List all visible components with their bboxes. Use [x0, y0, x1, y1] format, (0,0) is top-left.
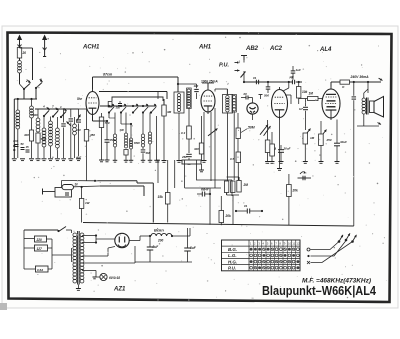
ground terminal A2 arrow	[44, 38, 46, 50]
cap C3 15	[26, 149, 30, 151]
wire taps right	[47, 238, 53, 240]
cap C11 500	[266, 86, 271, 88]
IF2 primary coil	[226, 96, 229, 99]
P.U. jack arrow 2	[235, 70, 240, 72]
osc resistor R22	[124, 150, 128, 156]
cap C7 150F	[105, 139, 110, 141]
wire IF2 downs	[226, 113, 228, 181]
cap C2 50	[21, 147, 25, 149]
svg-text:11: 11	[292, 242, 295, 246]
switch link 1	[311, 242, 340, 250]
band switch S1b	[35, 87, 37, 89]
wire C21 gnd rail	[135, 261, 192, 263]
coil L1 antenna coil	[16, 110, 20, 114]
svg-text:50M: 50M	[248, 126, 255, 130]
wire ACH1 screen	[92, 117, 94, 122]
wire switch to trafo	[66, 229, 72, 231]
svg-text:Blaupunkt–W66K|AL4: Blaupunkt–W66K|AL4	[262, 283, 377, 298]
cap C20 01b	[246, 209, 248, 214]
transformer primary	[73, 233, 77, 237]
junction mid	[94, 180, 96, 182]
osc switch S3e	[150, 111, 152, 113]
wire taps to trafo	[52, 254, 72, 256]
ground AC2	[277, 168, 282, 170]
volume pot arrow	[208, 129, 218, 136]
osc coil L9 30000	[124, 133, 127, 136]
wire AB2 down	[252, 114, 254, 120]
tube AB2 diode	[247, 103, 258, 114]
resistor R9 50M	[236, 128, 240, 139]
speaker cone	[374, 97, 384, 118]
resistor R13 2k	[270, 144, 275, 156]
svg-text:200: 200	[157, 239, 164, 243]
cap C14 1uF top	[291, 70, 296, 72]
resistor R3 700	[36, 133, 40, 143]
resistor R17 250	[319, 134, 324, 146]
antenna A1 dipole ticks	[18, 45, 20, 48]
svg-text:87cm: 87cm	[103, 73, 113, 77]
wire OT top	[363, 93, 365, 98]
variable cap CV	[76, 119, 81, 121]
svg-text:6500: 6500	[134, 141, 140, 145]
svg-text:Bckn: Bckn	[154, 228, 164, 233]
wire AH1 drops	[203, 112, 205, 160]
ground R8	[202, 160, 207, 162]
svg-text:50: 50	[21, 142, 25, 146]
switch link 2	[311, 241, 347, 257]
cap C8 100	[194, 88, 199, 90]
svg-text:AH1: AH1	[198, 45, 212, 51]
IF2 secondary	[233, 96, 236, 99]
mains switch	[59, 227, 67, 232]
pot AL4 b	[319, 130, 327, 140]
resistor R5 700	[99, 117, 103, 128]
lamp tap	[82, 270, 96, 272]
resistor R8 300	[199, 143, 203, 154]
wire switch drops	[23, 89, 25, 99]
wire IF2 top	[226, 89, 228, 95]
switch post dot	[307, 255, 309, 257]
svg-text:240V 36mA: 240V 36mA	[350, 75, 370, 79]
wire AL4 plate rail	[350, 81, 382, 83]
voltage tap box 220	[35, 236, 47, 242]
svg-text:0.3: 0.3	[181, 131, 186, 135]
svg-text:00: 00	[244, 92, 248, 96]
selector box	[55, 188, 72, 198]
ground C9	[187, 162, 192, 164]
IF2 transformer	[223, 95, 233, 114]
wire IF1 top	[177, 77, 179, 92]
cap C16 U7	[303, 106, 308, 108]
svg-text:12: 12	[296, 242, 300, 246]
coil L2	[30, 106, 34, 110]
wire tuner left	[13, 99, 15, 158]
wire IF1 down	[178, 113, 180, 160]
antenna A1 arrow	[19, 38, 21, 48]
wire lower rail 2	[100, 185, 144, 187]
cap C15 30uF	[278, 149, 284, 151]
switch post circle	[307, 248, 310, 251]
wire inner loop	[112, 97, 163, 101]
svg-text:Si: Si	[75, 183, 78, 187]
transformer secondary	[80, 233, 84, 237]
svg-text:0.5: 0.5	[230, 157, 235, 161]
wire PU bus	[244, 81, 293, 83]
svg-text:20k: 20k	[225, 214, 232, 218]
svg-text:L.G.: L.G.	[228, 253, 237, 258]
resistor R18 15k	[165, 193, 170, 205]
pot 1M arrow	[264, 126, 271, 136]
cap field	[352, 96, 357, 98]
svg-text:127: 127	[37, 247, 43, 251]
HT tap mid	[82, 242, 96, 244]
wire antenna down	[19, 80, 21, 84]
ground R11	[265, 161, 270, 163]
cap C22 8uF	[184, 247, 191, 249]
wire speaker return	[357, 125, 379, 127]
wire mains rails	[62, 180, 96, 182]
resistor R-ant 20k	[17, 48, 21, 59]
band switch S2c	[60, 116, 62, 118]
coil L7 150	[73, 124, 77, 128]
svg-text:2M: 2M	[243, 183, 249, 187]
svg-text:15k: 15k	[158, 195, 164, 199]
switch pivot dots	[338, 240, 341, 243]
cap C10 01	[255, 80, 257, 85]
wire AC2 plate	[285, 94, 291, 96]
tuning cap CV arrow	[77, 115, 81, 122]
trimmer CT1 arrow	[67, 122, 71, 126]
dial lamp	[100, 273, 107, 280]
wire trio top	[238, 177, 240, 181]
tube AZ1	[115, 233, 129, 247]
osc switch S3b	[120, 111, 122, 113]
coil L6	[56, 128, 60, 132]
svg-text:AZ1: AZ1	[113, 287, 126, 293]
osc rail	[100, 105, 156, 107]
speaker return arrow	[378, 123, 382, 125]
IF1 transformer can	[174, 92, 184, 113]
band switch S1a	[23, 88, 25, 90]
transformer core	[77, 231, 79, 285]
svg-text:1: 1	[40, 78, 42, 82]
wire choke out	[172, 235, 190, 237]
wire AL4 top	[330, 82, 332, 87]
svg-text:26F: 26F	[181, 155, 187, 159]
svg-text:1uF: 1uF	[296, 68, 302, 72]
wire AZ1 out	[129, 240, 140, 242]
cap C1 150	[15, 144, 19, 146]
resistor trio Rb	[231, 181, 235, 193]
wire y188 link	[185, 187, 221, 189]
svg-text:B.G.: B.G.	[228, 247, 237, 252]
svg-text:3M: 3M	[167, 110, 172, 114]
svg-text:400: 400	[23, 133, 29, 137]
resistor R11 1M	[265, 140, 270, 153]
resistor R10 05M	[236, 152, 241, 163]
svg-text:AL4: AL4	[319, 47, 332, 53]
ground IF1	[177, 160, 182, 162]
svg-text:30uF: 30uF	[284, 147, 291, 151]
osc switch S3c	[132, 111, 134, 113]
svg-text:30uF: 30uF	[340, 140, 347, 144]
svg-text:0.6A: 0.6A	[37, 268, 43, 272]
osc switch S3a	[108, 111, 110, 113]
pot AC2 arrow	[260, 125, 268, 135]
junction dots left	[13, 145, 15, 147]
svg-text:10: 10	[288, 242, 292, 246]
svg-text:500: 500	[264, 94, 269, 98]
B+ bus	[83, 223, 354, 227]
svg-text:150F: 150F	[110, 138, 117, 142]
wire ACH1 bottom rail	[95, 180, 137, 182]
resistor R6 3M	[162, 105, 166, 116]
switch levers	[339, 236, 343, 242]
pot AL4 a	[303, 129, 311, 139]
osc feed links	[108, 113, 110, 119]
wire grid link	[79, 108, 87, 110]
svg-text:RF: RF	[201, 188, 205, 192]
cap C34 box	[182, 160, 201, 164]
cap C17 30uF	[334, 142, 340, 144]
wire AC2 grid	[288, 82, 290, 88]
svg-text:AB2: AB2	[245, 46, 259, 52]
svg-text:20: 20	[22, 51, 27, 55]
HT link	[95, 236, 97, 243]
selector cap	[65, 192, 69, 194]
coil L4	[42, 128, 46, 132]
svg-text:15: 15	[26, 145, 30, 149]
tube AC2	[272, 90, 288, 118]
padder cap C5	[69, 118, 74, 120]
resistor R14 1M grid	[308, 97, 319, 101]
wire selector down	[81, 187, 83, 196]
wire box upper	[197, 160, 233, 180]
wire PU down	[243, 60, 245, 63]
osc coil L11	[141, 134, 144, 137]
cap C12 00	[245, 96, 247, 100]
AZ1 anodes	[118, 237, 120, 243]
mark x AL4	[298, 177, 312, 179]
IF1 secondary	[187, 89, 190, 92]
speaker arrow tick	[379, 78, 383, 80]
table contact dots	[250, 248, 253, 251]
cap C13 HF	[291, 80, 293, 85]
resistor R23 10k	[108, 102, 112, 108]
voltage tap box 127	[35, 245, 48, 251]
grounds AL4	[303, 161, 308, 163]
coil L-ant	[18, 61, 22, 65]
switch post x	[307, 261, 310, 264]
cap C24 305	[118, 103, 122, 105]
bus corner right	[353, 100, 355, 226]
wire v158	[157, 160, 159, 183]
svg-text:4: 4	[42, 105, 45, 109]
wire v 210	[209, 188, 211, 225]
output transformer core	[366, 98, 368, 115]
wire AH1 top	[207, 83, 209, 88]
resistor R7 03M	[187, 126, 192, 139]
resistor trio Ra	[224, 181, 228, 193]
wire antenna to switch	[19, 47, 21, 50]
mains lead	[24, 229, 58, 231]
svg-text:6V/0.18: 6V/0.18	[109, 276, 120, 280]
transformer centre tap gnd	[77, 285, 79, 289]
cap C21 8uF	[147, 246, 154, 248]
switch link 3	[311, 242, 353, 263]
ground terminal A2 ticks	[43, 48, 45, 51]
heater tap 2	[82, 262, 100, 264]
switch table grid	[222, 240, 301, 271]
svg-text:250: 250	[326, 138, 332, 142]
resistor R16	[303, 133, 308, 144]
cap C9 26F	[186, 153, 192, 155]
wire 87cm run	[93, 76, 179, 78]
svg-text:01: 01	[253, 76, 257, 80]
cap C19 01	[201, 192, 203, 197]
IF1 primary coil	[177, 94, 180, 97]
wire taps vertical	[23, 230, 25, 269]
svg-text:10k: 10k	[302, 90, 308, 94]
svg-text:5hr: 5hr	[77, 97, 83, 101]
svg-text:300: 300	[194, 147, 199, 151]
resistor R2 400	[29, 130, 33, 141]
resistor R19 20k	[219, 211, 224, 223]
wire HF right	[296, 81, 302, 83]
osc switch S3d	[142, 111, 144, 113]
grounds AC2 cathode	[270, 161, 275, 163]
tube AL4	[322, 89, 340, 118]
wire field coil drop2	[353, 100, 355, 226]
P.U. switch blade	[241, 72, 246, 78]
coil L5 osc	[49, 121, 53, 125]
osc coil L10	[129, 138, 132, 141]
resistor R15 screen	[340, 80, 350, 84]
wire screen feed	[163, 99, 165, 105]
osc coil L12	[148, 132, 151, 135]
resistor R4 450	[84, 130, 88, 142]
osc cap C23 46F	[141, 149, 146, 151]
svg-text:U7: U7	[299, 107, 303, 111]
svg-text:2: 2	[25, 79, 28, 83]
wire AC2 down	[279, 120, 281, 169]
wire field coil drop	[353, 82, 355, 96]
wire rail corner	[136, 181, 138, 183]
wire trio bottom	[226, 193, 228, 196]
wire v 174	[174, 160, 176, 188]
tube AH1	[201, 90, 215, 112]
svg-text:01: 01	[244, 204, 248, 208]
output transformer winding	[362, 98, 366, 102]
resistor R21 1W	[79, 199, 83, 209]
AB2 plates	[250, 107, 256, 109]
osc coil L8	[113, 134, 116, 137]
ground C34	[201, 164, 203, 170]
wire OT bottom	[363, 114, 365, 126]
svg-text:600: 600	[33, 113, 38, 117]
osc grounds	[113, 159, 118, 161]
fuse Si	[62, 185, 74, 190]
svg-text:1M: 1M	[310, 136, 315, 140]
svg-text:P.U.: P.U.	[219, 63, 229, 69]
svg-text:20k: 20k	[292, 189, 299, 193]
speaker body	[370, 101, 375, 113]
svg-text:220: 220	[36, 238, 43, 242]
svg-text:AC2: AC2	[269, 46, 283, 52]
trimmer CT1	[61, 123, 66, 125]
wire ACH1 plate	[99, 91, 167, 93]
heater run	[100, 255, 108, 257]
switch lever tips	[342, 235, 343, 237]
svg-text:100: 100	[194, 84, 199, 88]
svg-text:H.G.: H.G.	[228, 259, 237, 264]
P.U. jack arrow 1	[235, 62, 240, 64]
heater tap 1	[82, 255, 100, 257]
tuner mid rail	[35, 108, 79, 110]
tube ACH1	[86, 92, 99, 115]
resistor R12 10k	[297, 87, 301, 99]
HT tap top	[82, 235, 96, 237]
resistor trio Rc	[237, 181, 241, 193]
band switch S2b	[52, 115, 54, 117]
ground ACH1 cathode	[99, 159, 104, 161]
ground row tuner	[12, 158, 17, 160]
svg-text:ACH1: ACH1	[82, 45, 100, 51]
tuner top rail	[14, 98, 37, 100]
svg-text:P.U.: P.U.	[228, 266, 236, 271]
AB2 grid post	[259, 94, 263, 96]
mains post	[42, 189, 44, 195]
choke Bckn	[151, 233, 172, 236]
wire ACH1 top cap	[92, 77, 94, 89]
band switch S2a	[43, 115, 45, 117]
osc wire right	[156, 116, 158, 160]
svg-text:1M: 1M	[309, 92, 314, 96]
ground dial lamp	[96, 276, 100, 278]
coil L3 600	[36, 118, 40, 122]
voltage tap box 06A	[36, 266, 49, 272]
resistor R20 20k	[287, 185, 292, 197]
P.U. terminal post	[241, 55, 247, 57]
